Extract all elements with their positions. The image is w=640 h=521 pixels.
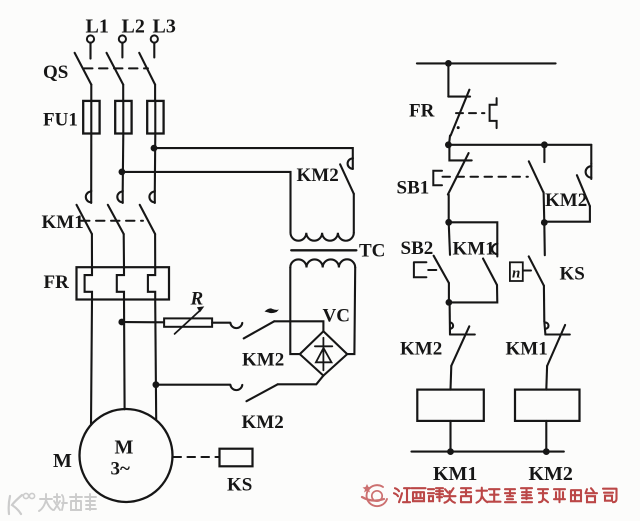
wire pole1 fuse to KM1 bbox=[90, 134, 92, 191]
resistor R arrow bbox=[175, 306, 205, 334]
svg-text:3~: 3~ bbox=[111, 459, 131, 480]
node top rail bbox=[445, 60, 452, 67]
wire pole3 fuse to KM1 bbox=[154, 134, 157, 191]
switch KS dash bbox=[524, 270, 532, 272]
terminal L1 bbox=[87, 35, 94, 42]
wire pole2 fuse to KM1 bbox=[122, 134, 125, 191]
wire bottom rail bbox=[412, 451, 564, 453]
svg-text:SB1: SB1 bbox=[397, 178, 430, 199]
node bottom rail right bbox=[543, 448, 550, 455]
node rail2 mid bbox=[541, 141, 548, 148]
wire pole2 QS to fuse bbox=[122, 85, 124, 101]
wire L1 drop bbox=[89, 43, 91, 59]
svg-text:KM2: KM2 bbox=[545, 190, 587, 211]
wire pole1 FR to motor bbox=[91, 300, 92, 425]
contactor KM1 link dashed bbox=[81, 220, 143, 222]
watermark logo bottom-left bbox=[9, 493, 35, 514]
wire pole3 KM1 to FR bbox=[154, 234, 156, 268]
resistor R box bbox=[164, 318, 212, 326]
wire KM2 to TC primary right bbox=[353, 194, 355, 233]
svg-text:KM1: KM1 bbox=[433, 463, 477, 485]
contactor KM1 fixed hook pole3 bbox=[149, 191, 154, 203]
wire KM1-NC to coil bbox=[545, 366, 548, 390]
company name text red bbox=[394, 488, 617, 503]
company logo red bbox=[362, 484, 387, 506]
wire KM2 brake2 to bridge bottom bbox=[278, 376, 324, 385]
svg-text:VC: VC bbox=[323, 306, 350, 327]
button SB1 dashed rod bbox=[443, 176, 528, 178]
contact SB1-NO top bbox=[543, 145, 545, 162]
svg-text:KM2: KM2 bbox=[297, 165, 339, 186]
contact KM2 mid blade bbox=[340, 164, 354, 194]
wire pole3 FR to motor bbox=[155, 300, 156, 420]
wire branchA horizontal bbox=[154, 148, 353, 158]
mark smudge bbox=[265, 308, 280, 313]
node bottom rail left bbox=[447, 448, 454, 455]
svg-text:FR: FR bbox=[409, 101, 435, 122]
wire KS top bbox=[543, 223, 546, 256]
wire L3 drop bbox=[153, 43, 155, 58]
contactor KM1 blade pole1 bbox=[77, 205, 92, 234]
contactor KM1 blade pole3 bbox=[140, 205, 155, 234]
terminal L2 bbox=[119, 35, 126, 42]
coil KM1 bbox=[417, 390, 484, 421]
wire control top rail bbox=[417, 62, 556, 64]
svg-text:KM2: KM2 bbox=[242, 350, 284, 371]
wire pole1 KM1 to FR bbox=[91, 234, 93, 268]
wire SB1-NO bottom bbox=[543, 192, 546, 222]
contact KM2 brake1 blade bbox=[244, 321, 275, 338]
switch QS blade pole1 bbox=[75, 53, 92, 85]
wire pole2 KM1 to FR bbox=[123, 234, 125, 268]
button SB2 actuator bbox=[414, 262, 427, 277]
transformer TC primary winding bbox=[291, 233, 354, 241]
switch KS n-box bbox=[510, 262, 523, 281]
wire FR blade to rail2 bbox=[449, 136, 450, 145]
svg-text:TC: TC bbox=[359, 241, 385, 262]
fuse FU1 pole3 bbox=[147, 101, 163, 134]
wire TC secondary left lead bbox=[290, 268, 300, 355]
svg-text:KM2: KM2 bbox=[242, 412, 284, 433]
wire KM2 coil to bottom rail bbox=[545, 421, 547, 452]
svg-text:n: n bbox=[512, 266, 520, 282]
svg-text:M: M bbox=[115, 437, 134, 459]
switch QS link dashed bbox=[84, 67, 148, 69]
svg-text:KM2: KM2 bbox=[529, 463, 573, 485]
wire phase2 to resistor R bbox=[122, 321, 164, 323]
button SB1 top stub bbox=[449, 145, 471, 161]
contact KM2 selfhold fixed hook bbox=[586, 164, 592, 179]
contact FR dashed link bbox=[456, 112, 484, 114]
node KS top bbox=[541, 219, 548, 226]
relay FR heater pole3 bbox=[148, 267, 155, 299]
svg-text:QS: QS bbox=[43, 62, 68, 83]
wire KS to KM1-NC bbox=[543, 286, 545, 322]
contact FR NC top stub bbox=[448, 96, 470, 98]
wire top rail to FR contact bbox=[447, 63, 449, 96]
button SB2 dashed rod bbox=[428, 269, 436, 271]
node phase3 brake-branch bbox=[153, 381, 160, 388]
transformer TC secondary winding bbox=[290, 259, 355, 267]
fuse FU1 pole1 bbox=[83, 101, 99, 134]
wire KM2 to bridge top bbox=[274, 321, 323, 331]
wire SB2 to node bbox=[448, 283, 450, 302]
contact KM2 selfhold blade bbox=[577, 175, 590, 206]
wire branchB horizontal bbox=[122, 172, 291, 233]
node rail2 left bbox=[445, 141, 452, 148]
wire dashed motor to KS bbox=[174, 456, 220, 458]
contact KM2 brake1 fixed hook bbox=[230, 323, 242, 328]
relay FR trip flag bbox=[490, 98, 497, 128]
svg-text:KM1: KM1 bbox=[453, 239, 495, 260]
wire pole1 QS to fuse bbox=[90, 85, 92, 101]
svg-text:L2: L2 bbox=[122, 16, 145, 38]
relay FR heater pole2 bbox=[117, 267, 124, 299]
wire rail2 right corner bbox=[590, 145, 592, 164]
wire KM2-NC to coil bbox=[449, 366, 452, 390]
fuse FU1 pole2 bbox=[115, 101, 131, 134]
svg-text:L1: L1 bbox=[86, 16, 109, 38]
wire KM1 aux bottom bbox=[449, 285, 497, 302]
svg-text:KM2: KM2 bbox=[400, 339, 442, 360]
switch QS blade pole2 bbox=[107, 53, 124, 85]
wire resistor to KM2 contact bbox=[212, 322, 230, 324]
contact KM2 brake2 blade bbox=[247, 384, 278, 401]
wire SB1 to node bbox=[448, 195, 450, 223]
contact KM1-NC blade bbox=[547, 325, 565, 366]
rectifier VC diode bbox=[315, 338, 332, 371]
transformer TC core bar bbox=[291, 249, 356, 251]
svg-text:KM1: KM1 bbox=[42, 212, 84, 233]
switch KS blade bbox=[529, 256, 544, 285]
contact FR NC blade bbox=[451, 90, 470, 136]
svg-text:FU1: FU1 bbox=[43, 110, 78, 131]
relay FR heater pole1 bbox=[85, 267, 92, 299]
terminal L3 bbox=[151, 35, 158, 42]
contact SB1-NO blade bbox=[529, 161, 544, 192]
contact KM2-NC fixed hook bbox=[450, 302, 475, 334]
button SB1 actuator bbox=[433, 171, 442, 186]
watermark text bottom-left bbox=[39, 494, 96, 511]
wire L2 drop bbox=[121, 43, 123, 58]
node phase3 branchA bbox=[151, 145, 158, 152]
contact KM2-NC blade bbox=[451, 326, 469, 366]
wire SB2 top bbox=[449, 222, 450, 255]
speed-switch KS box bbox=[220, 449, 253, 467]
switch QS blade pole3 bbox=[139, 53, 155, 85]
wire pole3 QS to fuse bbox=[154, 85, 156, 101]
svg-text:SB2: SB2 bbox=[401, 238, 434, 259]
svg-text:KS: KS bbox=[560, 264, 585, 285]
motor M circle bbox=[80, 409, 173, 502]
mark stray dot bbox=[457, 126, 460, 129]
svg-text:KS: KS bbox=[227, 475, 252, 496]
svg-text:R: R bbox=[190, 289, 204, 310]
rectifier VC bridge diamond bbox=[300, 331, 347, 375]
contactor KM1 fixed hook pole2 bbox=[117, 191, 122, 203]
button SB2 blade bbox=[434, 256, 449, 283]
wire phase3 to KM2 brake2 bbox=[156, 384, 230, 386]
wire KM1 aux top bbox=[449, 222, 498, 243]
contactor KM1 fixed hook pole1 bbox=[86, 191, 91, 203]
node SB1 bottom bbox=[445, 219, 452, 226]
svg-text:L3: L3 bbox=[153, 16, 176, 38]
relay FR box bbox=[77, 267, 170, 299]
node phase2 branchB bbox=[119, 169, 126, 176]
node SB2 bottom bbox=[446, 299, 453, 306]
wire KM1 coil to bottom rail bbox=[449, 421, 451, 452]
wire pole2 FR to motor bbox=[123, 300, 126, 410]
wire KM2 selfhold bottom bbox=[544, 206, 590, 222]
wire control rail2 bbox=[448, 144, 591, 146]
contact KM2 mid fixed hook bbox=[348, 158, 353, 169]
button SB1 blade bbox=[448, 153, 469, 194]
svg-text:FR: FR bbox=[44, 272, 70, 293]
coil KM2 bbox=[515, 390, 580, 421]
contact KM1 aux blade bbox=[483, 259, 497, 286]
svg-text:M: M bbox=[53, 450, 72, 472]
contact KM1-NC fixed hook bbox=[544, 321, 570, 334]
contact KM1 aux fixed hook bbox=[492, 243, 497, 256]
svg-text:KM1: KM1 bbox=[506, 339, 548, 360]
node phase2 R-branch bbox=[118, 319, 125, 326]
contactor KM1 blade pole2 bbox=[108, 205, 124, 234]
wire TC secondary right lead bbox=[347, 268, 355, 355]
contact KM2 brake2 fixed hook bbox=[230, 385, 242, 390]
